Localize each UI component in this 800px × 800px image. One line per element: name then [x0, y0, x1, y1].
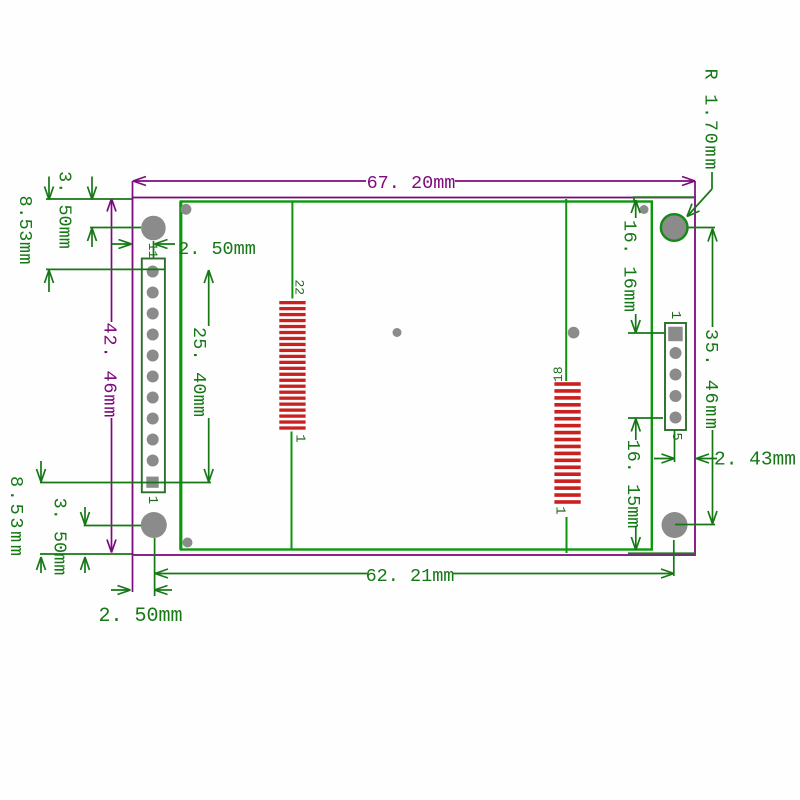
svg-text:1: 1: [292, 434, 308, 442]
via dot bottom-left: [183, 538, 193, 548]
dim 2.50mm top arrows: [112, 240, 175, 259]
dim 16.15mm line: [631, 419, 640, 551]
ext line hole BL center: [84, 525, 141, 527]
dim 8.53mm bottom arrows: [37, 461, 46, 573]
strip1 leader top: [291, 202, 293, 299]
svg-text:2. 43mm: 2. 43mm: [714, 449, 796, 471]
svg-text:42. 46mm: 42. 46mm: [99, 323, 120, 418]
ext line hole BL vertical: [154, 538, 156, 596]
dim 62.21mm line: [155, 569, 674, 578]
mounting hole top-left: [141, 216, 166, 241]
strip2 leader top: [565, 199, 567, 381]
dim 16.16mm line: [631, 200, 640, 333]
dim 3.50mm top arrows: [88, 177, 97, 248]
svg-text:16. 15mm: 16. 15mm: [622, 440, 643, 529]
svg-text:2. 50mm: 2. 50mm: [178, 239, 256, 260]
board outline: [133, 198, 696, 556]
ext line pin1 right conn: [628, 332, 665, 334]
dim 8.53mm top arrows: [45, 177, 54, 293]
ext line pad1 bottom: [40, 482, 211, 484]
strip1 leader bottom: [291, 432, 293, 550]
ext line hole TL center: [90, 227, 141, 229]
svg-text:16. 16mm: 16. 16mm: [619, 220, 640, 312]
mounting hole top-right R1.70: [661, 214, 688, 241]
svg-text:3. 50mm: 3. 50mm: [49, 498, 70, 576]
svg-text:67. 20mm: 67. 20mm: [367, 173, 456, 194]
svg-text:18: 18: [551, 366, 566, 382]
left connector square pad pin1: [146, 477, 158, 488]
ext line hole BR right: [675, 524, 715, 526]
left connector round pads: [147, 266, 159, 467]
ext line pad11 left: [46, 268, 165, 270]
dim 25.40mm line: [204, 270, 213, 482]
ext line hole TR right: [688, 227, 715, 229]
bottom edge green overlay: [40, 553, 132, 555]
svg-text:1: 1: [552, 506, 568, 514]
via dot center: [393, 328, 402, 337]
bottom edge green overlay right: [628, 552, 695, 554]
svg-text:1: 1: [144, 496, 160, 504]
dim 67.20mm line: [133, 177, 696, 198]
right connector square pad pin1: [668, 327, 683, 342]
svg-text:8.53mm: 8.53mm: [14, 196, 35, 265]
svg-text:2. 50mm: 2. 50mm: [98, 605, 182, 628]
display area outline: [181, 202, 652, 550]
via dot top-left: [181, 204, 192, 215]
dim 3.50mm bottom arrows: [81, 507, 90, 573]
fpc strip2 18pin: [554, 382, 580, 504]
fpc strip1 22pin: [279, 301, 305, 430]
ext line hole BR vertical: [673, 540, 675, 576]
mounting hole bottom-left: [141, 512, 167, 538]
svg-text:1: 1: [667, 311, 683, 319]
dim 42.46mm line: [107, 199, 116, 553]
right connector round pads: [670, 347, 682, 424]
mounting hole bottom-right: [662, 512, 688, 538]
right connector box: [665, 323, 686, 430]
dim 2.50mm bottom arrows: [111, 586, 172, 595]
display glass top step: [634, 197, 695, 201]
board edge ext bottom purple: [132, 556, 134, 592]
ext line top edge left: [46, 198, 132, 200]
ext line pin5 right conn: [628, 417, 663, 419]
svg-text:3. 50mm: 3. 50mm: [54, 171, 75, 249]
svg-text:35. 46mm: 35. 46mm: [700, 329, 721, 429]
svg-text:R 1.70mm: R 1.70mm: [700, 69, 721, 170]
dim 35.46mm line: [708, 229, 717, 525]
display area left edge thick: [179, 202, 182, 550]
via dot near strip2: [568, 327, 580, 339]
svg-text:5: 5: [668, 432, 683, 440]
left connector box: [142, 259, 165, 493]
dim 2.43mm arrows: [654, 430, 717, 463]
strip2 leader bottom: [566, 517, 568, 553]
via dot top-right: [640, 205, 649, 214]
svg-text:25. 40mm: 25. 40mm: [188, 327, 209, 417]
dim R1.70mm leader: [687, 172, 712, 217]
svg-text:62. 21mm: 62. 21mm: [366, 566, 455, 587]
svg-text:22: 22: [292, 279, 307, 295]
